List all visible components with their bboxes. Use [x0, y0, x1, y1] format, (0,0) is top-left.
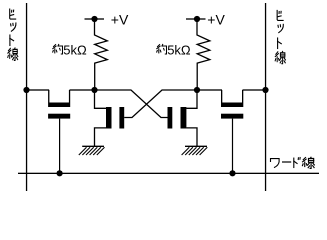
wire: Q2 to right bit line — [243, 89, 267, 90]
node B (right storage node dot) — [194, 87, 200, 93]
label ビット線 (left bit line, vertical text) — [8, 9, 18, 60]
node: Q1 gate / word line junction — [57, 170, 63, 176]
node: left bit line tap dot — [23, 87, 29, 93]
label 約5kΩ (left) — [53, 43, 87, 58]
label ワード線 (word line) — [271, 157, 315, 168]
svg-text:+V: +V — [207, 12, 225, 28]
node: right bit line tap dot — [262, 87, 268, 93]
node: Q2 gate / word line junction — [229, 170, 235, 176]
label ビット線 (right bit line, vertical text) — [275, 10, 285, 63]
transistor Q3 (left driver MOSFET) — [106, 107, 124, 129]
wire: Q1 gate to word line — [59, 119, 60, 174]
wire: left driver source to ground — [95, 128, 107, 146]
wire: right bit line — [265, 3, 266, 191]
transistor Q4 (right driver MOSFET) — [168, 107, 187, 129]
wire: Q1 to node A — [70, 89, 96, 90]
wire: Q2 gate to word line — [232, 119, 233, 174]
svg-text:5kΩ: 5kΩ — [167, 43, 191, 58]
wire: cross-couple Q3 gate to node B — [124, 90, 197, 118]
wire: left bit line to access transistor Q1 — [27, 89, 50, 90]
resistor R2 (right load, 約5kΩ) — [197, 19, 210, 90]
transistor Q1 (left access MOSFET) — [48, 90, 70, 119]
svg-text:+V: +V — [111, 12, 129, 28]
wire: right driver source to ground — [186, 128, 197, 146]
svg-text:5kΩ: 5kΩ — [63, 43, 87, 58]
wire: node A to left driver drain — [95, 90, 107, 108]
wire: node B to access transistor Q2 — [197, 89, 222, 90]
wire: left bit line — [26, 3, 27, 191]
+V supply bar (right) — [186, 18, 206, 19]
wire: word line — [18, 173, 319, 174]
node A (left storage node dot) — [91, 87, 97, 93]
wire: node B to right driver drain — [186, 90, 197, 108]
node: +V tap dot (right) — [194, 16, 200, 22]
+V supply bar (left) — [85, 18, 105, 19]
node: +V tap dot (left) — [91, 16, 97, 22]
ground (left) — [79, 146, 105, 155]
wire: cross-couple node A to Q4 gate — [95, 90, 168, 118]
resistor R1 (left load, 約5kΩ) — [95, 19, 108, 90]
transistor Q2 (right access MOSFET) — [221, 90, 243, 119]
label 約5kΩ (right) — [157, 43, 191, 58]
ground (right) — [182, 146, 208, 155]
